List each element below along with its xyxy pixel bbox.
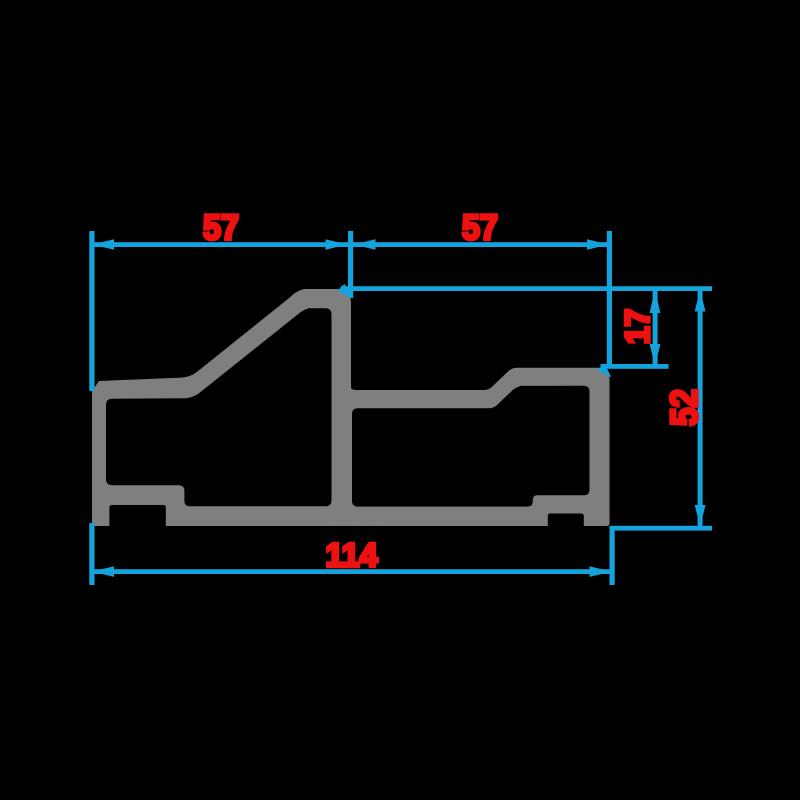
arrow bottom-left xyxy=(92,566,114,577)
svg-text:17: 17 xyxy=(619,309,657,345)
dimension 17: lower extension line xyxy=(601,364,669,369)
reference line at profile top (17/52 upper datum) xyxy=(341,286,712,291)
dimension 57: extension line middle xyxy=(348,231,353,298)
profile cross-section (aluminium extrusion body) xyxy=(92,289,610,526)
dimension 52: dimension line xyxy=(698,288,703,528)
arrow 17 down xyxy=(650,344,661,366)
dimension 52: lower extension line xyxy=(610,526,713,531)
dimension 114: extension line left xyxy=(89,523,94,585)
arrow top-middle-left xyxy=(326,239,348,250)
label 52 (rotated) xyxy=(663,389,706,426)
svg-text:57: 57 xyxy=(203,208,239,247)
arrow top-right xyxy=(587,239,609,250)
arrow top-left xyxy=(92,239,114,250)
dimension line top (57 + 57) xyxy=(92,242,609,247)
svg-text:114: 114 xyxy=(326,538,378,575)
arrow 52 up xyxy=(695,290,706,312)
dimension 57 (left): extension line left xyxy=(89,231,94,391)
arrow 17 up xyxy=(650,290,661,314)
svg-text:57: 57 xyxy=(462,208,498,247)
dimension line bottom (114) xyxy=(92,569,612,574)
svg-text:52: 52 xyxy=(663,389,706,426)
arrow 52 down xyxy=(695,505,706,527)
dimension 114: extension line right xyxy=(610,526,615,585)
dimension 17: dimension line xyxy=(653,288,658,366)
arrow bottom-right xyxy=(590,566,612,577)
label 17 (rotated) xyxy=(619,309,657,345)
oblique arrow at right shoulder corner xyxy=(597,363,611,377)
arrow top-middle-right xyxy=(354,239,376,250)
dimension 57 (right): extension line right xyxy=(607,231,612,366)
oblique arrow at peak corner xyxy=(337,284,351,298)
